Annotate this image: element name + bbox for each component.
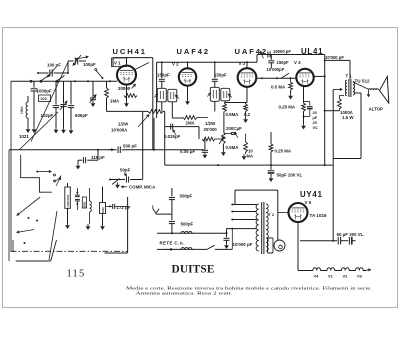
- svg-text:TU 512: TU 512: [355, 79, 371, 84]
- potentiometer 0.5MA volume: [222, 132, 226, 144]
- fuse line 2: [181, 248, 192, 250]
- wire rectifier cathode rail: [300, 240, 337, 242]
- wire top rail B+ over V3: [257, 54, 325, 56]
- label V1 box: [112, 58, 127, 67]
- resistor 10 MA: [245, 134, 247, 143]
- wire top rail to V2 V3: [157, 61, 257, 63]
- ground under oscillator coil: [26, 127, 31, 133]
- ground 102pF: [54, 128, 59, 134]
- wire left vertical bus second: [8, 150, 10, 261]
- arrow into T1 winding: [333, 88, 340, 90]
- trimmer with ground near tube V1: [92, 81, 94, 97]
- svg-text:30000: 30000: [118, 86, 131, 91]
- coil box 8891: [82, 197, 86, 208]
- ground 10000pF mains: [224, 243, 229, 249]
- capacitor 172pF: [106, 205, 113, 207]
- IF transformer can 1a: [157, 88, 166, 102]
- wire rail 500pF: [9, 149, 117, 151]
- svg-text:0.5 MA: 0.5 MA: [271, 85, 286, 90]
- ground cathode V4: [301, 124, 306, 130]
- speaker cone: [380, 77, 389, 104]
- svg-text:50 μF 200 VL.: 50 μF 200 VL.: [337, 232, 365, 237]
- mains line 1: [157, 232, 227, 234]
- tube V3 UAF42: [238, 68, 257, 87]
- tube V4 UL41: [296, 69, 313, 86]
- svg-text:115 pF: 115 pF: [91, 155, 105, 160]
- wire rail middle ground bus: [165, 164, 334, 166]
- svg-text:500pF: 500pF: [181, 222, 194, 227]
- ground 115pF: [76, 164, 81, 170]
- svg-text:25'000: 25'000: [204, 127, 218, 132]
- wire V1 diagonal grid: [135, 63, 149, 70]
- wire vertical right of IF1: [164, 111, 166, 165]
- ground 606pF: [69, 128, 74, 134]
- svg-text:1000pF: 1000pF: [37, 89, 52, 94]
- part number box 022: [39, 95, 51, 102]
- capacitor 115pF: [97, 150, 99, 161]
- svg-text:0.25 MA: 0.25 MA: [275, 149, 292, 154]
- tuning gang link diagonal 4: [49, 211, 57, 260]
- coil box 0220: [100, 203, 106, 214]
- wire heater V5: [278, 212, 289, 214]
- capacitor 25uF 25VC: [304, 101, 310, 103]
- wire V2 cathode: [187, 86, 189, 99]
- switch contacts on grid line: [30, 80, 32, 82]
- oscillator coil: [27, 96, 29, 102]
- svg-text:UCH41: UCH41: [113, 47, 147, 56]
- resistor 2M: [172, 117, 183, 119]
- power transformer T2 windings: [256, 204, 259, 251]
- svg-text:25: 25: [313, 111, 317, 115]
- svg-text:150pF: 150pF: [214, 73, 227, 78]
- electrolytic 50uF 200VL right: [337, 237, 339, 245]
- gang box bottom edge: [16, 260, 51, 262]
- dash-dot gang line bottom: [11, 250, 128, 252]
- svg-text:V 1: V 1: [114, 61, 121, 66]
- svg-text:ALTOP: ALTOP: [369, 107, 384, 112]
- svg-text:V3: V3: [357, 274, 363, 279]
- capacitor 10000pF top: [267, 52, 269, 58]
- wire can1a bottom: [161, 102, 163, 112]
- svg-text:V 5: V 5: [305, 200, 312, 205]
- ground voice coil: [367, 93, 371, 98]
- ground potentiometer: [221, 150, 226, 156]
- svg-text:T 2: T 2: [269, 212, 276, 217]
- capacitor 10000pF mains filter: [226, 229, 228, 238]
- svg-text:0.5MΛ: 0.5MΛ: [226, 112, 239, 117]
- label COMP MICA: [124, 186, 127, 188]
- svg-text:022: 022: [41, 97, 47, 101]
- svg-text:10'000 pF: 10'000 pF: [325, 55, 344, 60]
- svg-text:1159 6031: 1159 6031: [66, 194, 70, 207]
- tuning gang link diagonal 1: [31, 62, 68, 142]
- svg-text:DUITSE: DUITSE: [172, 264, 215, 276]
- ground V1 cathode: [124, 101, 129, 107]
- svg-text:0220: 0220: [101, 207, 105, 213]
- tube V1 UCH41: [117, 66, 136, 85]
- wire feedback box: [332, 89, 334, 240]
- coil box 1159 6031: [65, 187, 71, 208]
- svg-text:50μF 200 VL: 50μF 200 VL: [277, 173, 303, 178]
- svg-text:10000 pF: 10000 pF: [273, 49, 291, 54]
- svg-text:25: 25: [313, 121, 317, 125]
- filament chain: [298, 270, 313, 272]
- svg-text:0.025pF: 0.025pF: [164, 134, 181, 139]
- mains switch V: [153, 209, 159, 213]
- svg-text:10'000 pF: 10'000 pF: [233, 242, 253, 247]
- wire main grid line: [11, 80, 117, 82]
- ground coil box 1: [65, 223, 70, 229]
- wire to voice coil: [353, 82, 368, 89]
- wire V1 top cap: [126, 58, 128, 66]
- svg-text:1/2W: 1/2W: [205, 121, 216, 126]
- svg-text:V2: V2: [343, 274, 349, 279]
- svg-text:100Λ: 100Λ: [20, 106, 24, 114]
- svg-text:10'000Λ: 10'000Λ: [111, 128, 127, 133]
- ground middle: [61, 128, 66, 134]
- wire V2 top pin: [187, 62, 189, 68]
- svg-text:1.5 W: 1.5 W: [342, 115, 354, 120]
- capacitor 1000pF with label: [33, 81, 35, 88]
- wire right branch down: [120, 205, 128, 207]
- oscillator coil 2: [89, 188, 91, 201]
- IF transformer can 2a: [210, 87, 219, 101]
- svg-text:MA: MA: [247, 154, 254, 159]
- tuning gang link diagonal 2: [19, 112, 58, 150]
- svg-text:V4: V4: [314, 274, 320, 279]
- wire vertical mid riser 1: [142, 111, 144, 179]
- ground 50uF: [269, 176, 274, 182]
- ground coil 2: [86, 224, 91, 230]
- wire 0.5M down to potentiometer: [223, 112, 225, 133]
- svg-text:150pF: 150pF: [157, 73, 170, 78]
- antenna arrow symbol: [75, 58, 77, 60]
- IF transformer can 1b: [168, 89, 177, 102]
- tube V2 UAF42: [179, 68, 196, 85]
- ground grid leak V4: [288, 94, 293, 100]
- switch staircase wiring: [21, 155, 52, 192]
- resistor 0.2: [245, 103, 247, 105]
- resistor 10000 1/2W on rail: [107, 110, 149, 112]
- resistor 0.25MA cathode V4: [303, 86, 305, 103]
- ground 0.05uF: [203, 153, 208, 159]
- svg-text:μF: μF: [313, 116, 318, 120]
- svg-text:606pF: 606pF: [75, 113, 88, 118]
- svg-text:10'000pF: 10'000pF: [267, 67, 285, 72]
- resistor 1M grid leak: [106, 81, 108, 88]
- wire can2b to V3 grid: [224, 101, 226, 103]
- switch contacts 3: [54, 174, 56, 176]
- svg-text:100 pF: 100 pF: [47, 63, 61, 68]
- wire plate riser vertical: [152, 58, 154, 150]
- IF transformer can 2b: [221, 88, 230, 101]
- svg-text:115: 115: [67, 269, 86, 280]
- wire V1 cathode: [126, 85, 128, 102]
- wire T2 secondary top loop: [235, 189, 278, 191]
- mains line 2: [157, 248, 207, 250]
- capacitor 500pF lower mains: [171, 214, 173, 220]
- wire V3 plate to V4 grid: [256, 77, 296, 79]
- svg-text:COMP. MICA: COMP. MICA: [129, 185, 156, 190]
- ground arrow 0.2: [243, 117, 248, 123]
- capacitor 0.05uF to ground: [204, 139, 206, 149]
- svg-text:Antenna automatica. Resa 2 wat: Antenna automatica. Resa 2 watt.: [136, 291, 233, 296]
- resistor 0.5MA grid leak V4: [290, 78, 292, 82]
- wire V3 cathode line: [225, 102, 248, 104]
- svg-text:1MΛ: 1MΛ: [110, 99, 119, 104]
- svg-text:200CμF: 200CμF: [226, 126, 242, 131]
- wire B+ riser right: [324, 55, 326, 166]
- fuse line 1: [181, 231, 192, 233]
- svg-text:0.5MA: 0.5MA: [226, 145, 240, 150]
- wire can2a bottom: [214, 101, 216, 111]
- svg-text:50pF: 50pF: [120, 168, 131, 173]
- svg-text:T 1: T 1: [346, 74, 353, 79]
- tuning gang link diagonal 3 with arrow: [19, 197, 40, 214]
- wire vertical mid riser 2: [153, 118, 155, 150]
- ground coil box 0220: [100, 224, 105, 230]
- svg-text:0.2: 0.2: [244, 112, 251, 117]
- wire plate rail UL41: [325, 59, 350, 61]
- wire left vertical bus: [10, 81, 12, 251]
- trimmer capacitor 100pF second: [67, 61, 69, 73]
- dial lamp: [268, 238, 274, 253]
- padder capacitors stack: [76, 188, 78, 195]
- svg-text:8891: 8891: [83, 201, 87, 207]
- svg-text:UY41: UY41: [300, 190, 323, 199]
- svg-text:1/2W: 1/2W: [118, 122, 129, 127]
- svg-text:UAF42: UAF42: [177, 47, 211, 56]
- power transformer T2 primary taps: [232, 204, 256, 206]
- capacitor 606pF column: [70, 81, 72, 104]
- svg-text:0.25 MA: 0.25 MA: [279, 105, 296, 110]
- svg-text:V1: V1: [328, 274, 334, 279]
- ground under 1000pF: [32, 127, 37, 133]
- ground COMP MICA: [115, 183, 120, 189]
- wire V5 to filament chain: [297, 222, 299, 271]
- capacitor 500pF upper mains: [171, 188, 173, 197]
- electrolytic 50uF 200VL lower: [270, 165, 272, 170]
- svg-text:V 4: V 4: [294, 60, 301, 65]
- svg-text:Medie e corte. Reazione invers: Medie e corte. Reazione inversa tra bobi…: [126, 285, 372, 290]
- wire can1b bottom: [171, 102, 173, 118]
- svg-text:2MΛ: 2MΛ: [186, 121, 195, 126]
- band switch arm top: [96, 70, 103, 78]
- mains switch arm line2: [207, 245, 215, 249]
- svg-text:RETE C.A.: RETE C.A.: [160, 241, 185, 246]
- capacitor 150pF V4 grid: [270, 55, 272, 60]
- ground V2 cathode: [185, 99, 190, 105]
- voice coil: [369, 89, 379, 90]
- wire T1 top feed: [349, 60, 351, 79]
- capacitor 50pF: [110, 179, 125, 181]
- capacitor 102pF column: [55, 81, 57, 104]
- resistor 1000 ohm 1.5W: [339, 95, 344, 97]
- tube V5 UY41: [289, 203, 308, 222]
- svg-text:500pF: 500pF: [180, 194, 193, 199]
- ground 10MA: [242, 154, 247, 160]
- svg-text:VC: VC: [313, 126, 319, 130]
- svg-text:1021: 1021: [19, 134, 29, 139]
- resistor 0.5M: [223, 104, 227, 112]
- wire V3 top pin: [246, 62, 248, 68]
- wire AVC line with 0.025 capacitor: [165, 126, 199, 128]
- svg-text:172 pF: 172 pF: [117, 205, 131, 210]
- trimmer capacitor middle column: [63, 81, 65, 103]
- svg-text:100pF: 100pF: [83, 62, 96, 67]
- trimmer capacitor 100pF antenna with wire: [38, 72, 49, 74]
- svg-text:500 pF: 500 pF: [123, 144, 137, 149]
- svg-text:150pF: 150pF: [277, 60, 290, 65]
- wire V4 plate: [314, 75, 325, 77]
- svg-text:TA 1016: TA 1016: [310, 213, 328, 218]
- wire screen riser vertical: [156, 62, 158, 118]
- pointer arrow left: [19, 230, 34, 232]
- resistor 0.25MA screen lower: [270, 132, 272, 144]
